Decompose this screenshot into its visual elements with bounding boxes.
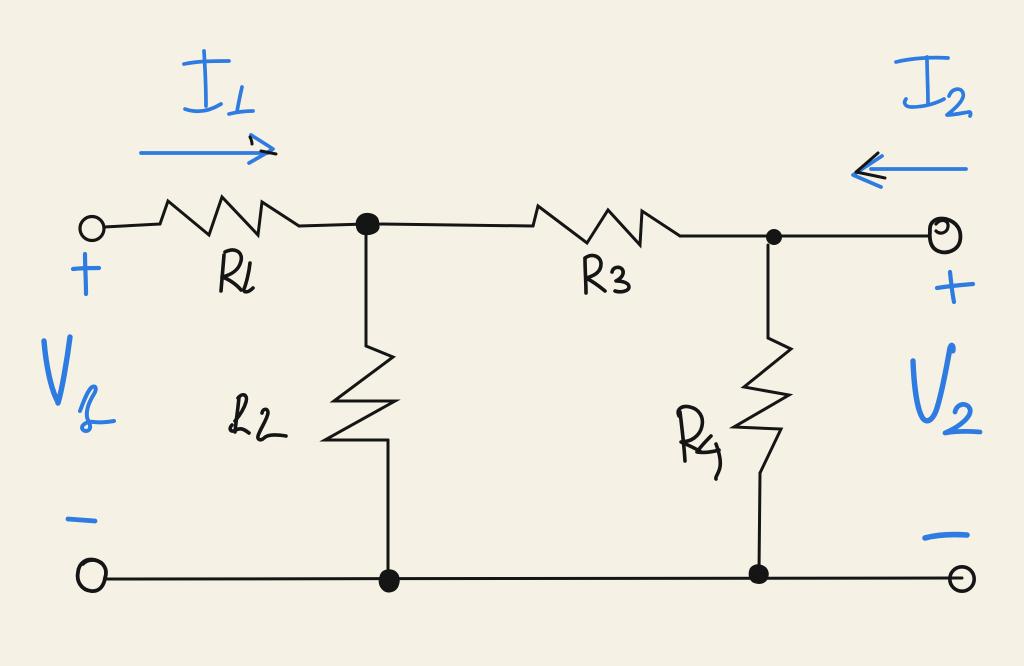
label R1 bbox=[221, 255, 224, 291]
wire port1-to-R1 bbox=[104, 224, 160, 227]
resistor R2 bbox=[325, 346, 395, 440]
black overlay on arrowheads bbox=[250, 137, 885, 178]
node D junction dot bbox=[750, 565, 768, 583]
terminal port1 top bbox=[80, 217, 104, 241]
label R4 bbox=[680, 412, 685, 461]
node C junction dot bbox=[380, 570, 399, 591]
label I1 bbox=[184, 61, 229, 64]
terminal port2 top inner curl bbox=[936, 220, 948, 233]
arrow I2 black scribble bbox=[856, 153, 885, 178]
blue annotations bbox=[44, 51, 980, 538]
terminal port2 bottom bbox=[950, 567, 974, 591]
node A junction dot bbox=[357, 214, 379, 234]
wire R2-to-nodeC bbox=[387, 440, 390, 577]
resistor R3 bbox=[533, 206, 680, 245]
label V1 bbox=[44, 341, 58, 402]
wire R3-to-nodeB bbox=[680, 235, 928, 238]
terminal port1 bottom bbox=[78, 560, 106, 592]
wire R4-to-nodeD bbox=[759, 473, 760, 572]
label R2 bbox=[235, 397, 239, 432]
bottom rail wire bbox=[106, 578, 962, 579]
terminal port2 top (scribbled loop) bbox=[930, 219, 961, 253]
arrow I1 black scribble bbox=[250, 137, 252, 144]
plus sign V2 bbox=[937, 284, 973, 288]
minus sign V2 bbox=[925, 535, 967, 538]
label R3 bbox=[585, 259, 586, 293]
wire nodeA down bbox=[365, 233, 368, 346]
resistor R1 bbox=[160, 197, 299, 235]
wire nodeA-to-R3 bbox=[377, 224, 533, 226]
wire nodeB down bbox=[767, 245, 770, 338]
minus sign V1 bbox=[68, 519, 95, 521]
label V2 bbox=[913, 348, 950, 421]
handwritten black labels bbox=[221, 250, 720, 479]
label I2 bbox=[896, 58, 948, 62]
arrow I1 bbox=[141, 151, 268, 155]
node B junction dot bbox=[766, 229, 782, 245]
wire R1-to-nodeA bbox=[299, 224, 366, 226]
arrow I2 bbox=[871, 167, 966, 171]
resistor R4 bbox=[734, 338, 791, 473]
plus sign V1 bbox=[73, 268, 99, 269]
